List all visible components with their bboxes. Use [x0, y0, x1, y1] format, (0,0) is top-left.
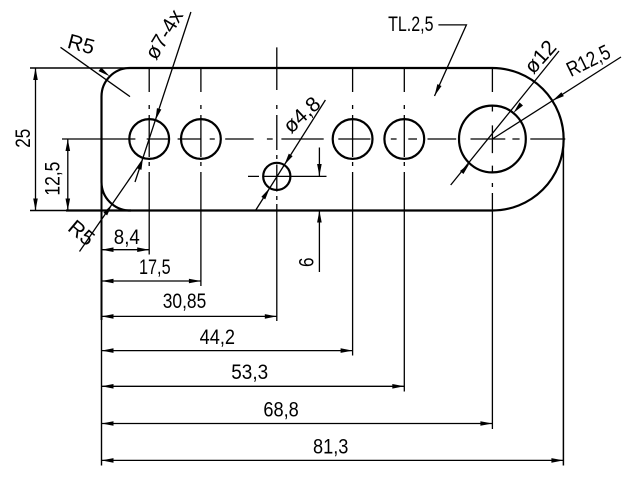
svg-text:6: 6 [295, 257, 318, 267]
hole 5 Ø7 [384, 119, 424, 159]
extension line left edge (below plate, thin part) [101, 320, 103, 466]
vertical centerline hole 4 [352, 68, 354, 166]
extension line right edge [562, 139, 564, 466]
arrow dim 8,4 right [137, 247, 149, 252]
arrow dim 44,2 left [102, 348, 114, 353]
arrow leader TL.2,5 [432, 84, 441, 97]
svg-text:25: 25 [12, 129, 35, 148]
svg-text:30,85: 30,85 [163, 290, 207, 313]
arrow dim 53,3 right [392, 384, 404, 389]
leader Ø12 [451, 51, 559, 185]
svg-text:R5: R5 [63, 216, 98, 251]
svg-text:ø12: ø12 [520, 36, 561, 78]
arrow dim 81,3 right [551, 458, 563, 463]
arrow leader R5 bottom-left [103, 203, 114, 215]
arrow dim 68,8 left [102, 421, 114, 426]
svg-text:TL.2,5: TL.2,5 [388, 13, 433, 36]
arrow leader Ø12 lower [460, 162, 471, 174]
horizontal centerline [62, 138, 565, 140]
svg-text:ø4,8: ø4,8 [279, 93, 325, 138]
svg-text:53,3: 53,3 [231, 361, 268, 384]
arrow dim 68,8 right [480, 421, 492, 426]
arrow dim 6 lower [317, 211, 322, 223]
vertical centerline hole 5 [403, 68, 405, 166]
hole 2 Ø7 [181, 119, 221, 159]
arrow dim 30,85 right [265, 314, 277, 319]
leader Ø7-4x [135, 12, 191, 182]
extension line small hole [276, 204, 278, 321]
arrow dim 17,5 right [189, 279, 201, 284]
plate outline [102, 68, 564, 211]
dimension 68,8 [102, 423, 493, 425]
extension line left edge (below plate, thick part) [101, 182, 103, 320]
dimension 30,85 [102, 315, 277, 317]
dimension 6 line upper [318, 148, 320, 177]
vertical centerline hole 1 [148, 68, 150, 166]
extension line top edge left [30, 67, 131, 69]
dimension 12,5 line [67, 139, 69, 211]
extension line hole 5 [403, 172, 405, 392]
hole 3 Ø4,8 (small) [263, 163, 290, 190]
svg-text:44,2: 44,2 [200, 326, 235, 349]
arrow leader Ø7 lower [137, 157, 145, 170]
vertical centerline small hole [276, 47, 278, 200]
arrow dim 12,5 bottom [66, 199, 71, 211]
dimension 53,3 [102, 385, 405, 387]
arrow dim 25 bottom [33, 199, 38, 211]
arrow dim 17,5 left [102, 279, 114, 284]
arrow leader Ø12 upper [512, 102, 523, 114]
extension line hole 2 [200, 172, 202, 286]
arrow dim 6 upper [317, 164, 322, 176]
svg-text:R5: R5 [65, 30, 97, 59]
arrow dim 44,2 right [341, 348, 353, 353]
arrow leader Ø4,8 upper [282, 154, 292, 167]
small hole horizontal centerline [248, 175, 327, 177]
arrow leader Ø7 upper [153, 108, 161, 121]
svg-text:12,5: 12,5 [41, 162, 64, 196]
svg-text:17,5: 17,5 [139, 256, 171, 279]
arrow dim 53,3 left [102, 384, 114, 389]
leader TL.2,5 [435, 25, 467, 96]
svg-text:8,4: 8,4 [114, 226, 140, 249]
extension line big hole [491, 193, 493, 429]
arrow leader R5 top-left [99, 67, 111, 78]
svg-text:68,8: 68,8 [263, 399, 298, 422]
vertical centerline big hole [491, 68, 493, 187]
arrow dim 12,5 top [66, 139, 71, 151]
arrow dim 25 top [33, 68, 38, 80]
svg-text:81,3: 81,3 [313, 435, 348, 458]
extension line hole 1 [148, 172, 150, 255]
dimension 8,4 [102, 249, 150, 251]
hole 1 Ø7 [129, 119, 169, 159]
dimension 44,2 [102, 350, 353, 352]
arrow dim 8,4 left [102, 247, 114, 252]
svg-text:R12,5: R12,5 [563, 41, 614, 82]
dimension 81,3 [102, 459, 564, 461]
extension line bottom edge left (thin part) [30, 210, 66, 212]
leader R5 bottom-left [80, 162, 142, 252]
arrow dim 81,3 left [102, 458, 114, 463]
vertical centerline hole 2 [200, 68, 202, 166]
leader R5 top-left [61, 47, 131, 96]
leader R12,5 [492, 57, 621, 139]
arrow dim 30,85 left [102, 314, 114, 319]
dimension 25 line [35, 68, 37, 211]
hole 6 Ø12 (big, right end) [459, 106, 526, 173]
dimension 6 line lower [318, 211, 320, 273]
extension line bottom edge left (thick part) [66, 209, 131, 211]
svg-text:ø7-4x: ø7-4x [141, 5, 189, 63]
arrow leader R12,5 [551, 92, 564, 102]
leader Ø4,8 [256, 100, 326, 211]
dimension 17,5 [102, 280, 201, 282]
extension line hole 4 [352, 172, 354, 356]
arrow leader Ø4,8 lower [261, 187, 271, 200]
hole 4 Ø7 [333, 119, 373, 159]
